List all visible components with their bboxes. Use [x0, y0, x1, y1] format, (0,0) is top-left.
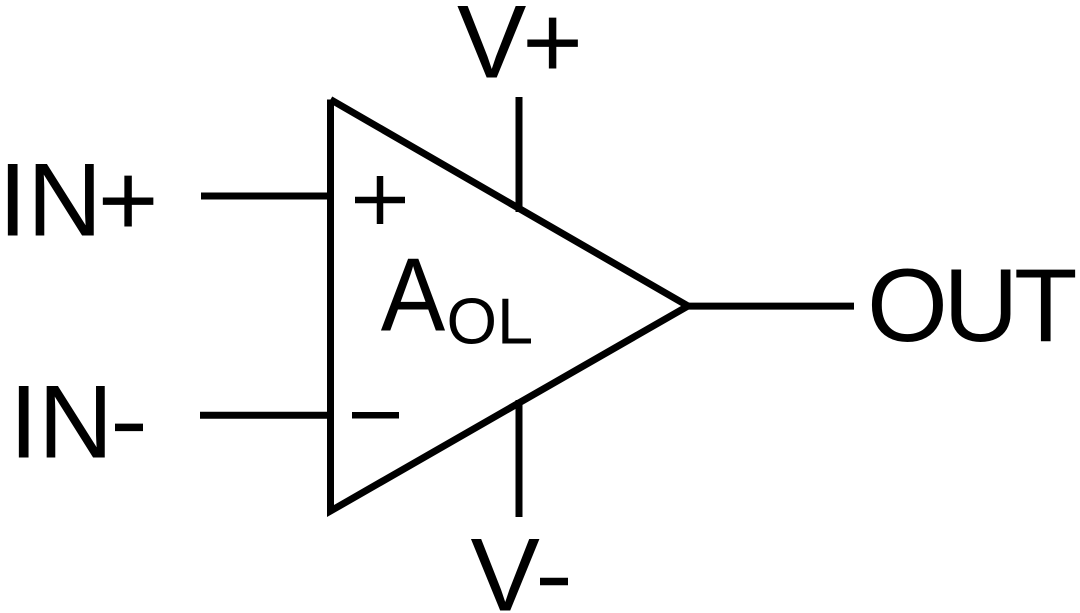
- svg-text:A: A: [381, 237, 446, 353]
- svg-text:IN: IN: [9, 364, 113, 480]
- svg-text:IN: IN: [0, 142, 102, 258]
- svg-text:OUT: OUT: [867, 248, 1076, 364]
- svg-text:V: V: [471, 517, 540, 613]
- svg-text:V: V: [457, 0, 526, 101]
- svg-text:+: +: [98, 142, 159, 258]
- svg-text:+: +: [522, 0, 583, 101]
- svg-text:OL: OL: [447, 284, 534, 357]
